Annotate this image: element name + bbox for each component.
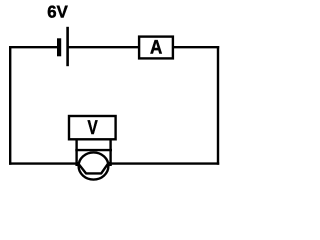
wire top segment from left corner to battery: [9, 46, 58, 48]
svg-text:6V: 6V: [47, 3, 68, 22]
lamp L1 cap line between leads: [75, 149, 112, 151]
wire bottom segment from left corner to lamp: [9, 162, 80, 164]
wire voltmeter left lead: [75, 139, 77, 166]
ammeter A1 box: [139, 37, 173, 59]
svg-text:V: V: [88, 117, 99, 139]
lamp L1 bulb circle: [79, 152, 109, 179]
voltmeter V1 box: [69, 116, 116, 139]
wire top segment from battery to ammeter: [67, 46, 140, 48]
wire right vertical: [217, 46, 219, 165]
wire voltmeter right lead: [109, 139, 111, 166]
battery B1 short thick plate: [57, 38, 61, 56]
lamp L1 filament arc: [78, 163, 109, 174]
wire top segment from ammeter to right corner: [173, 46, 219, 48]
battery B1 long thin plate: [66, 27, 69, 66]
svg-text:A: A: [150, 37, 162, 59]
wire left vertical: [9, 46, 11, 165]
wire bottom segment from lamp to right corner: [107, 162, 219, 164]
